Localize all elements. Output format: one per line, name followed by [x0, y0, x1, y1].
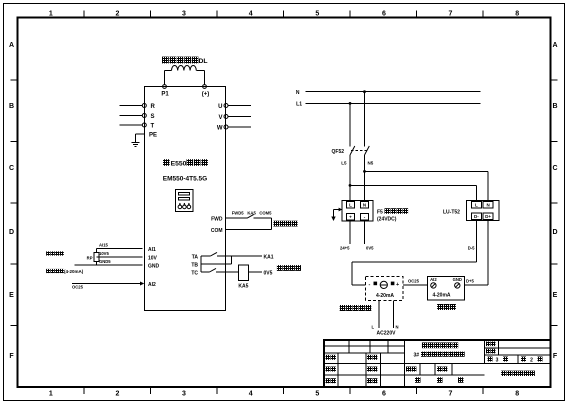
F5 earth arrow [334, 209, 343, 211]
wire L1 drop [349, 103, 351, 146]
svg-text:1: 1 [49, 11, 53, 18]
transmitter meter circle [380, 281, 387, 288]
terminal S [142, 114, 146, 118]
svg-text:E: E [553, 292, 558, 299]
svg-text:GND: GND [148, 263, 160, 269]
svg-text:6: 6 [382, 391, 386, 398]
wire TA-TB-TC common [200, 256, 202, 272]
svg-text:AC220V: AC220V [377, 331, 397, 337]
wire 10V [97, 248, 143, 250]
title block outline [324, 340, 551, 387]
AI block name label [437, 304, 443, 310]
svg-text:0V5: 0V5 [366, 246, 374, 251]
svg-text:8: 8 [515, 11, 519, 18]
cell label design [326, 355, 331, 360]
svg-text:U: U [218, 104, 222, 110]
border bottom zone ticks [83, 387, 85, 394]
svg-text:W: W [217, 126, 223, 132]
wire input S [120, 115, 143, 117]
svg-text:4: 4 [249, 11, 253, 18]
svg-text:OC25: OC25 [408, 279, 420, 284]
wire L5 [349, 155, 351, 200]
wire coil to 0V [249, 271, 263, 273]
svg-text:PE: PE [149, 132, 157, 138]
svg-text:R: R [151, 104, 156, 110]
svg-text:AI15: AI15 [99, 242, 109, 247]
svg-text:L: L [371, 325, 374, 330]
border left zone ticks [11, 79, 18, 81]
wire FWD [226, 217, 247, 219]
svg-text:GND5: GND5 [99, 259, 111, 264]
svg-text:FWD: FWD [211, 217, 223, 223]
cell label scale [406, 367, 411, 372]
svg-text:-: - [364, 215, 366, 220]
svg-text:N: N [363, 203, 366, 208]
instrument LU-T52 outline [466, 200, 499, 220]
wire 24- [364, 221, 366, 244]
svg-text:5: 5 [315, 391, 319, 398]
svg-text:E550: E550 [171, 160, 187, 167]
wire TA [201, 255, 211, 257]
svg-text:D: D [552, 229, 557, 236]
wire N5 [364, 155, 366, 200]
svg-text:(24VDC): (24VDC) [377, 217, 397, 223]
wire N drop [364, 92, 366, 147]
label feedback signal 4-20mA [46, 269, 50, 273]
switch contact KA5 run [247, 214, 254, 218]
relay coil KA5 [238, 265, 248, 281]
terminal U [224, 104, 228, 108]
svg-text:OC25: OC25 [72, 285, 84, 290]
svg-text:KA1: KA1 [264, 255, 274, 261]
wire bus L1 [305, 102, 480, 104]
svg-text:3: 3 [182, 11, 186, 18]
inverter keypad knobs [178, 205, 182, 209]
wire TC [201, 271, 210, 273]
wire 24+ [349, 221, 351, 244]
svg-text:KA5: KA5 [238, 284, 248, 290]
svg-text:TB: TB [191, 262, 198, 268]
drawing title line1 [422, 342, 428, 348]
cell label trace [367, 355, 372, 360]
svg-text:GND: GND [453, 277, 462, 282]
svg-text:TC: TC [191, 270, 198, 276]
svg-text:24+5: 24+5 [340, 246, 350, 251]
svg-text:6: 6 [382, 11, 386, 18]
svg-text:FWD5: FWD5 [232, 211, 245, 216]
svg-text:D-5: D-5 [468, 246, 475, 251]
F5 terminal V- [361, 213, 369, 220]
terminal R [142, 104, 146, 108]
cell label draft [326, 367, 331, 372]
wire GND [75, 264, 143, 266]
svg-text:T: T [151, 124, 155, 130]
svg-text:RP: RP [87, 255, 93, 260]
cell label check [367, 367, 372, 372]
sheet number cell [521, 357, 526, 362]
node N tap [363, 90, 366, 93]
wire output U [228, 105, 251, 107]
svg-text:7: 7 [449, 391, 453, 398]
wire output V [228, 116, 251, 118]
svg-text:COM5: COM5 [259, 211, 272, 216]
svg-text:F: F [553, 353, 558, 360]
AI2 screw terminal [431, 283, 436, 288]
svg-text:N: N [396, 325, 399, 330]
svg-text:+: + [396, 282, 399, 288]
wire D+ to AI block [464, 284, 488, 286]
inverter AI block outline [428, 276, 465, 300]
wire output W [228, 126, 251, 128]
svg-text:AI2: AI2 [430, 277, 437, 282]
relay contact TA [211, 252, 218, 256]
node N5 branch [363, 170, 366, 173]
svg-text:L1: L1 [296, 102, 302, 108]
wire L5 to LU-T52 [350, 184, 476, 186]
svg-text:S: S [151, 114, 155, 120]
svg-text:D+5: D+5 [466, 279, 474, 284]
title block row1 cells [348, 340, 350, 353]
LU-T52 terminal D+ [483, 213, 493, 220]
cell label fig no [486, 342, 491, 347]
right section verticals [498, 340, 500, 355]
svg-text:L5: L5 [341, 161, 347, 166]
node L5 branch [349, 184, 352, 187]
svg-text:E: E [9, 292, 14, 299]
svg-text:0V5: 0V5 [264, 271, 273, 277]
svg-text:+: + [349, 215, 352, 220]
wire feedback AI2 [72, 283, 143, 285]
transmitter name label [340, 305, 346, 311]
terminal V [224, 115, 228, 119]
wire AI1 [97, 256, 143, 258]
svg-text:2: 2 [115, 11, 119, 18]
inverter U1 name label [163, 159, 170, 166]
svg-text:D+: D+ [485, 214, 491, 219]
svg-text:C: C [9, 165, 14, 172]
svg-text:3#: 3# [414, 352, 420, 358]
cell label year month day [415, 377, 421, 383]
wire transmitter N supply [393, 301, 395, 328]
wire D+ drop [487, 220, 489, 285]
wire transmitter to AI block [403, 284, 428, 286]
svg-text:AI1: AI1 [148, 247, 156, 253]
transmitter outline dashed [366, 276, 403, 300]
svg-text:N: N [296, 90, 300, 96]
svg-text:2: 2 [115, 391, 119, 398]
svg-text:3: 3 [496, 358, 499, 364]
wire input R [120, 105, 143, 107]
svg-text:EM550-4T5.5G: EM550-4T5.5G [163, 176, 207, 183]
F5 terminal V+ [347, 213, 355, 220]
terminal P1 [163, 85, 167, 89]
svg-text:4: 4 [249, 391, 253, 398]
svg-text:10V5: 10V5 [99, 251, 109, 256]
inverter U1 EM550 outline [145, 87, 226, 311]
svg-text:1: 1 [49, 391, 53, 398]
title block rows left [324, 345, 405, 347]
company name [501, 371, 506, 376]
border top zone ticks [83, 11, 85, 18]
svg-text:7: 7 [449, 11, 453, 18]
svg-text:A: A [9, 42, 14, 49]
GND screw terminal [455, 283, 460, 288]
terminal T [142, 123, 146, 127]
svg-text:4-20mA: 4-20mA [376, 293, 394, 299]
svg-text:5: 5 [315, 11, 319, 18]
svg-text:L: L [475, 203, 478, 208]
svg-text:N5: N5 [368, 161, 374, 166]
svg-text:V: V [218, 115, 222, 121]
cell label approve [326, 378, 331, 383]
node TB junction [201, 263, 232, 265]
svg-text:P1: P1 [161, 92, 169, 98]
wire COM [226, 229, 271, 231]
wire loop horizontal [352, 261, 476, 263]
title mid verticals [419, 363, 421, 375]
svg-text:B: B [9, 103, 14, 110]
F5 terminal L [347, 201, 355, 208]
svg-text:10V: 10V [148, 255, 158, 261]
svg-text:KA5: KA5 [247, 211, 256, 216]
svg-text:LU-T52: LU-T52 [443, 209, 460, 215]
title block verticals main [404, 340, 406, 387]
svg-text:3: 3 [182, 391, 186, 398]
svg-text:DL: DL [199, 58, 208, 65]
wire D- loop [475, 220, 477, 262]
node L1 tap [349, 102, 352, 105]
wire bus N [305, 91, 480, 93]
transmitter plus terminal [391, 282, 395, 286]
svg-text:L: L [349, 203, 352, 208]
svg-text:B: B [552, 103, 557, 110]
power module F5 outline [342, 200, 373, 221]
svg-text:(4-20mA): (4-20mA) [64, 269, 84, 274]
border right zone ticks [551, 79, 558, 81]
svg-text:F5: F5 [377, 209, 383, 215]
cell label qty [437, 367, 442, 372]
LU-T52 terminal L [472, 201, 482, 208]
svg-text:AI2: AI2 [148, 282, 156, 288]
ground symbol [131, 142, 139, 144]
label fault output [277, 265, 283, 271]
svg-text:QF52: QF52 [332, 149, 345, 155]
svg-text:N: N [486, 203, 489, 208]
dc reactor DL label [162, 57, 169, 64]
svg-text:D-: D- [474, 214, 479, 219]
svg-text:-: - [369, 282, 371, 288]
LU-T52 terminal N [483, 201, 493, 208]
potentiometer RP [94, 253, 99, 262]
svg-text:2: 2 [530, 358, 533, 364]
terminal W [224, 125, 228, 129]
right section rows [485, 347, 551, 349]
svg-text:A: A [552, 42, 557, 49]
relay contact TC [210, 268, 217, 272]
wire input T [120, 124, 143, 126]
F5 terminal N [361, 201, 369, 208]
svg-text:8: 8 [515, 391, 519, 398]
title block left grid verticals [337, 353, 339, 387]
LU-T52 terminal D- [472, 213, 482, 220]
inverter keypad display icon [176, 190, 194, 212]
svg-text:F: F [9, 353, 14, 360]
svg-text:C: C [552, 165, 557, 172]
svg-text:COM: COM [211, 228, 223, 234]
terminal (+) [203, 85, 207, 89]
label reference signal [46, 251, 50, 255]
dc reactor DL coil [164, 71, 166, 85]
wire transmitter L supply [378, 301, 380, 328]
label run-stop [273, 221, 279, 227]
wire PE [135, 133, 144, 135]
svg-text:4-20mA: 4-20mA [432, 293, 450, 299]
cell label file no [486, 349, 491, 354]
svg-text:(+): (+) [202, 92, 210, 98]
sheet total cell [488, 357, 493, 362]
wire run loop [270, 218, 272, 229]
svg-text:D: D [9, 229, 14, 236]
wire N5 to LU-T52 [365, 170, 489, 172]
cell label countersign [367, 378, 372, 383]
svg-text:TA: TA [192, 254, 199, 260]
